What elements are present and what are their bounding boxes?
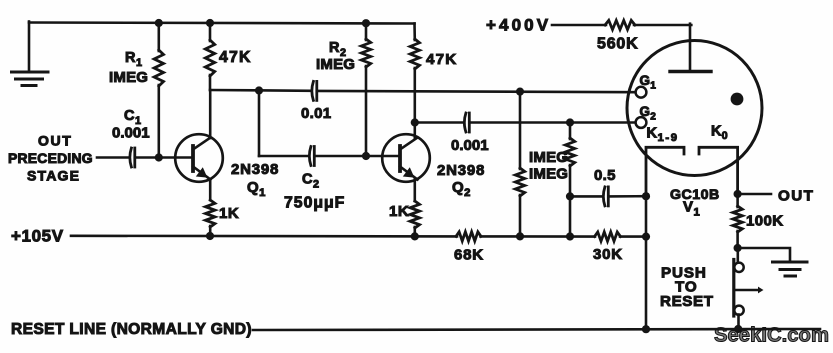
svg-text:0.001: 0.001 [451, 137, 489, 154]
resistor 1K (Q2 emitter) [410, 201, 419, 237]
svg-text:2N398: 2N398 [231, 161, 279, 178]
svg-text:100K: 100K [746, 213, 783, 230]
node Q2 collector [411, 118, 419, 126]
wire 0.5 row right [608, 195, 646, 198]
transistor Q2 2N398 [382, 123, 430, 202]
svg-text:IMEG: IMEG [529, 166, 568, 183]
node reset/K1-9 [642, 325, 650, 333]
label 1K (Q1) [219, 205, 239, 222]
wire reset line [253, 329, 820, 330]
label RESET LINE [11, 321, 252, 338]
svg-text:0.001: 0.001 [112, 125, 150, 142]
svg-text:STAGE: STAGE [27, 168, 80, 184]
svg-text:IMEG: IMEG [529, 149, 568, 166]
ground right [773, 262, 808, 276]
node 47K top [206, 19, 214, 27]
svg-text:RESET: RESET [660, 293, 714, 310]
svg-text:1K: 1K [389, 203, 409, 220]
capacitor C2 750uuF [284, 147, 345, 212]
svg-text:47K: 47K [426, 51, 457, 68]
wire left supply drop to ground [28, 22, 31, 72]
capacitor C1 0.001 [112, 108, 150, 167]
node R1 top [155, 19, 163, 27]
wire to right ground [738, 248, 790, 261]
svg-text:K1-9: K1-9 [647, 126, 679, 145]
label +105V [11, 227, 64, 246]
svg-text:47K: 47K [219, 49, 252, 66]
wire K1-9 column [645, 196, 648, 329]
label 47K (second) [426, 51, 457, 68]
svg-text:Q1: Q1 [247, 179, 265, 199]
resistor 560K [605, 20, 635, 29]
label V1 [683, 199, 700, 219]
svg-text:IMEG: IMEG [109, 69, 148, 86]
label 2N398 (Q2) [437, 162, 485, 179]
resistor 1K (Q1 emitter) [206, 200, 215, 236]
label K1-9 [647, 126, 679, 145]
svg-text:560K: 560K [597, 36, 638, 53]
cathode K1-9 [646, 147, 684, 196]
svg-text:GC10B: GC10B [670, 187, 720, 203]
label 1MEG 1MEG [529, 149, 568, 183]
node R2 top [362, 19, 370, 27]
wire input stub [97, 156, 128, 159]
label Q2 [452, 179, 470, 199]
node rail/1K Q1 [206, 232, 214, 240]
node 0.5/1MEG col [566, 192, 574, 200]
label 30K [593, 246, 623, 263]
label 1MEG (R1) [109, 69, 148, 86]
svg-text:1K: 1K [219, 205, 239, 222]
svg-text:IMEG: IMEG [316, 56, 355, 73]
tube index dot [731, 93, 744, 106]
capacitor 0.01 coupling [301, 81, 331, 122]
transistor Q1 2N398 [175, 90, 223, 200]
svg-text:0.01: 0.01 [301, 105, 331, 122]
svg-text:68K: 68K [454, 247, 484, 264]
pin G1 [636, 87, 647, 98]
node rail/1K Q2 [411, 232, 419, 240]
svg-text:RESET LINE (NORMALLY GND): RESET LINE (NORMALLY GND) [11, 321, 252, 338]
resistor 30K [595, 232, 621, 241]
capacitor 0.001 (Q2 collector to G2) [451, 113, 489, 154]
resistor 1MEG (G2 bias) [565, 123, 574, 237]
resistor 1MEG (G1 bias) [515, 92, 524, 237]
svg-text:Q2: Q2 [452, 179, 470, 199]
cathode K0 [699, 147, 738, 194]
label 2N398 (Q1) [231, 161, 279, 178]
label R2 [329, 40, 346, 59]
capacitor 0.5 [594, 167, 616, 206]
label G1 [640, 73, 657, 92]
label GC10B [670, 187, 720, 203]
label 560K [597, 36, 638, 53]
resistor 47K (Q2 collector load) [410, 24, 419, 123]
resistor 68K [456, 232, 481, 241]
tube anode plate [670, 70, 711, 73]
label G2 [640, 104, 657, 123]
pin G2 [636, 117, 647, 128]
wire Q1 collector row to grid G1 [210, 90, 636, 92]
svg-text:0.5: 0.5 [594, 167, 616, 184]
wire Q2 collector row to grid G2 [415, 121, 636, 124]
node Q1 base / R1 [155, 153, 163, 161]
tube envelope V1 [627, 41, 762, 176]
wire C2 left [259, 155, 307, 158]
svg-text:C2: C2 [302, 172, 319, 191]
wire C1 to Q1 base [135, 156, 193, 159]
node 0.5/K1-9 col [642, 192, 650, 200]
resistor R2 1MEG [361, 23, 370, 156]
svg-text:K0: K0 [711, 124, 728, 143]
label OUT [778, 188, 814, 205]
label +400V [486, 16, 551, 35]
node rail/1MEG b [566, 232, 574, 240]
node reset/switch [734, 325, 742, 333]
label OUT PRECEDING STAGE [8, 133, 93, 184]
label 68K [454, 247, 484, 264]
ground left [12, 72, 49, 86]
svg-text:30K: 30K [593, 246, 623, 263]
label 47K (first) [219, 49, 252, 66]
node Q2 base / R2 [362, 152, 370, 160]
node rail/1MEG a [516, 232, 524, 240]
label 1MEG (R2) [316, 56, 355, 73]
junction row A branch [255, 86, 263, 94]
svg-text:2N398: 2N398 [437, 162, 485, 179]
wire +400V feed [552, 24, 606, 27]
switch push-to-reset [734, 248, 764, 329]
node rail/K1-9 column [642, 233, 650, 241]
wire branch drop (row A to C2) [258, 91, 261, 157]
wire +105V rail [71, 235, 646, 238]
junction row A / 1MEG [516, 88, 524, 96]
label Q1 [247, 179, 265, 199]
svg-text:+105V: +105V [11, 227, 64, 246]
resistor 47K (Q1 collector load) [205, 23, 214, 90]
wire 0.5 row left [570, 195, 601, 198]
watermark SeekIC.com [714, 325, 829, 347]
wire 560K to plate [634, 24, 691, 72]
svg-text:750μμF: 750μμF [284, 195, 345, 212]
wire C2 to Q2 base [314, 155, 400, 158]
node OUT [734, 190, 742, 198]
label PUSH TO RESET [660, 265, 714, 311]
label R1 [125, 50, 142, 69]
label K0 [711, 124, 728, 143]
junction row B / 1MEG [566, 118, 574, 126]
svg-text:PRECEDING: PRECEDING [8, 150, 93, 166]
svg-text:R1: R1 [125, 50, 142, 69]
svg-text:+400V: +400V [486, 16, 551, 35]
svg-text:OUT: OUT [38, 133, 72, 149]
label 100K [746, 213, 783, 230]
resistor 100K [733, 194, 742, 248]
resistor R1 1MEG [154, 23, 163, 158]
node 100K bottom [734, 244, 742, 252]
svg-text:OUT: OUT [778, 188, 814, 205]
wire top supply rail [29, 23, 415, 24]
wire OUT stub [738, 193, 771, 196]
label 1K (Q2) [389, 203, 409, 220]
